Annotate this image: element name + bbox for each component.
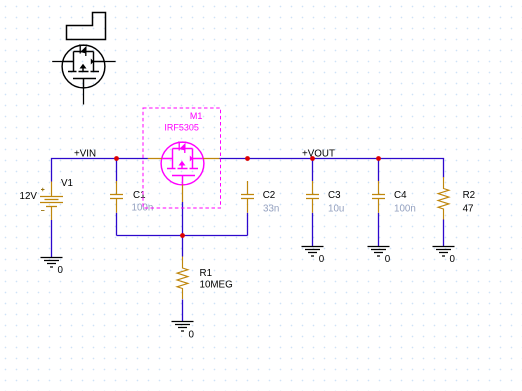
svg-text:IRF5305: IRF5305 [164, 123, 199, 133]
M1 selection box [143, 108, 221, 208]
svg-text:100n: 100n [394, 204, 416, 215]
svg-text:10u: 10u [328, 204, 344, 215]
svg-text:33n: 33n [263, 204, 279, 215]
svg-text:C4: C4 [394, 190, 407, 201]
svg-text:0: 0 [58, 265, 64, 276]
svg-text:+VOUT: +VOUT [302, 149, 335, 160]
wire C1 bottom [116, 213, 118, 236]
unplaced MOSFET pins [52, 62, 115, 105]
wire C1 tap [116, 159, 118, 182]
resistor R2 [438, 177, 449, 220]
svg-text:12V: 12V [20, 191, 38, 202]
svg-text:0: 0 [189, 330, 195, 341]
wire C4 bottom [378, 213, 380, 247]
wire C3 drop [312, 159, 314, 182]
wire M1 gate drop [182, 202, 184, 236]
svg-text:R1: R1 [200, 268, 213, 279]
wire R2 bottom [443, 220, 445, 247]
L-shaped polygon part [67, 13, 106, 40]
svg-text:10MEG: 10MEG [200, 280, 233, 291]
transistor M1 (selected, magenta) [161, 142, 204, 185]
svg-text:C2: C2 [263, 190, 276, 201]
svg-text:47: 47 [463, 204, 474, 215]
svg-text:0: 0 [385, 254, 391, 265]
wire C4 drop [378, 159, 380, 182]
unplaced MOSFET symbol copy (black) [62, 45, 105, 88]
wire top rail left (V1 to M1) [52, 159, 148, 182]
svg-text:+VIN: +VIN [74, 149, 96, 160]
voltage source V1 [40, 182, 63, 221]
wire bottom rail [117, 235, 248, 237]
capacitor C2 [241, 181, 254, 213]
ground 0 (C3) [302, 247, 324, 257]
ground 0 (V1) [41, 258, 63, 268]
capacitor C3 [306, 181, 319, 213]
wire C3 bottom [312, 213, 314, 247]
svg-text:R2: R2 [463, 190, 476, 201]
resistor R1 [177, 257, 188, 300]
wire C2 bottom [247, 213, 249, 236]
junction dot C3/rail [310, 156, 315, 161]
wire R1 top [182, 236, 184, 257]
junction dot C4/rail [376, 156, 381, 161]
svg-text:C1: C1 [133, 190, 146, 201]
M1 pins (gold) [148, 159, 220, 203]
svg-text:C3: C3 [328, 190, 341, 201]
wire top rail right (M1 to R2) [219, 159, 443, 178]
svg-text:100n: 100n [132, 203, 154, 214]
ground 0 (C4) [368, 247, 390, 257]
junction dot C2/rail [245, 156, 250, 161]
svg-text:0: 0 [450, 254, 456, 265]
wire V1 bottom [51, 220, 53, 258]
wire R1 bottom [182, 299, 184, 321]
capacitor C1 [110, 181, 123, 213]
svg-text:M1: M1 [190, 111, 203, 121]
svg-text:V1: V1 [61, 178, 73, 189]
ground 0 (R1) [172, 322, 194, 332]
svg-text:0: 0 [319, 254, 325, 265]
junction dot C1/rail [114, 156, 119, 161]
junction dot R1/gate rail [180, 233, 185, 238]
capacitor C4 [372, 181, 385, 213]
ground 0 (R2) [433, 247, 455, 257]
